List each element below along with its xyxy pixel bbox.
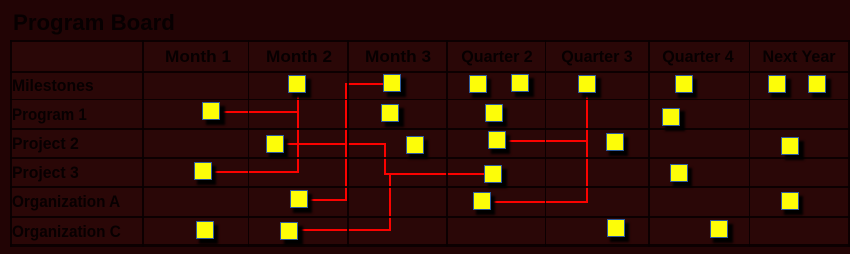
L5: OrgC/M2 right then up	[299, 229, 391, 231]
L3: Project2/M2 right, down, right to Project3/Q2	[285, 143, 386, 145]
L7: Project2/Q2 right	[507, 140, 587, 142]
squares: Milestones row	[288, 75, 306, 93]
title	[13, 10, 175, 36]
squares: Organization A row	[290, 190, 308, 208]
L2: Program1/M1 right	[221, 111, 299, 113]
squares: Organization C row	[196, 221, 214, 239]
grid: vertical lines	[10, 40, 12, 247]
L1: Milestones/M2 down then left to Project3/M1	[297, 94, 299, 173]
row labels	[12, 76, 94, 96]
L6: Milestones/Q3 down then left to OrgA/Q2	[586, 94, 588, 202]
square shadows	[292, 79, 311, 98]
squares: Program 1 row	[202, 102, 220, 120]
grid: horizontal lines	[10, 40, 850, 42]
squares: Project 2 row	[266, 135, 284, 153]
squares: Project 3 row	[194, 162, 212, 180]
header texts	[164, 48, 230, 67]
L4: Milestones/M3 left, down, left to OrgA/M2	[345, 83, 383, 85]
